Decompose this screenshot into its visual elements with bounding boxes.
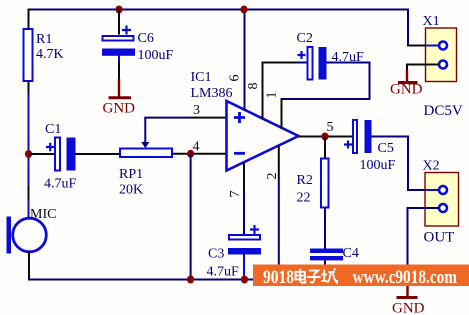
glyph dian: [296, 269, 306, 283]
svg-text:6: 6: [228, 75, 243, 82]
wire R1 to MIC (left vertical): [28, 82, 30, 219]
svg-text:R2: R2: [297, 173, 313, 188]
wire C2 to pin 1: [282, 63, 371, 129]
svg-text:4.7uF: 4.7uF: [207, 265, 240, 280]
svg-text:LM386: LM386: [191, 86, 233, 101]
svg-text:OUT: OUT: [424, 230, 455, 246]
wire RP1 wiper to pin 3: [141, 118, 226, 148]
wire rail to X1 pin1: [407, 9, 409, 46]
capacitor C4: [310, 246, 359, 261]
svg-text:www.c9018.com: www.c9018.com: [353, 268, 458, 288]
wire pin 8 to C2: [262, 63, 308, 120]
wire pin4 to bottom rail: [190, 154, 192, 280]
svg-text:20K: 20K: [119, 183, 143, 198]
svg-text:100uF: 100uF: [360, 158, 396, 173]
wire RP1 right to pin 4: [173, 153, 227, 155]
svg-text:100uF: 100uF: [138, 48, 174, 63]
wire output to R2: [324, 137, 326, 159]
wire C3 to bottom rail: [243, 255, 245, 280]
svg-text:X1: X1: [423, 14, 440, 29]
capacitor C1 4.7uF: [44, 122, 77, 192]
op-amp U1 LM386 triangle: [191, 70, 299, 171]
svg-text:IC1: IC1: [191, 70, 212, 85]
wire R2 to C4: [324, 209, 326, 249]
wire left vertical top stub: [28, 9, 30, 29]
wire top power rail: [29, 9, 409, 11]
glyph zi: [307, 271, 321, 283]
wire C5 to X2 pin1: [372, 137, 441, 191]
watermark banner: [253, 265, 469, 289]
wire C4 to bottom rail: [324, 260, 326, 279]
svg-text:1: 1: [265, 92, 280, 99]
wire MIC to bottom rail: [28, 252, 30, 279]
svg-text:MIC: MIC: [30, 207, 56, 222]
wire X2 pin2 to ground: [408, 208, 440, 286]
capacitor C6 100uF: [102, 26, 174, 64]
svg-text:DC5V: DC5V: [424, 103, 463, 119]
svg-text:C6: C6: [138, 31, 154, 46]
svg-text:4.7K: 4.7K: [36, 47, 64, 62]
node pin4 junction: [187, 150, 194, 158]
node output junction: [321, 133, 328, 141]
node bottom rail C3 junction: [241, 276, 248, 284]
svg-text:GND: GND: [392, 301, 425, 315]
wire output pin 5: [298, 136, 352, 138]
ground symbol below X2: [392, 284, 425, 315]
capacitor C3 4.7uF: [207, 225, 262, 280]
svg-text:8: 8: [246, 83, 261, 90]
glyph cheng: [321, 268, 337, 282]
svg-text:R1: R1: [36, 32, 52, 47]
microphone MIC: [7, 207, 57, 254]
svg-text:X2: X2: [423, 159, 440, 174]
wire C6 to ground: [118, 56, 120, 63]
wire pin 6 to top rail: [244, 10, 246, 111]
svg-text:2: 2: [265, 173, 280, 180]
ground symbol below X1: [390, 70, 423, 98]
node top rail pin6 junction: [240, 6, 247, 14]
connector X2: [423, 159, 459, 246]
svg-text:C2: C2: [297, 31, 313, 46]
node top rail C6 junction: [115, 6, 122, 14]
svg-text:4.7uF: 4.7uF: [44, 177, 77, 192]
wire C1 to RP1: [76, 153, 120, 155]
wire C1 junction to C1: [29, 153, 55, 155]
capacitor C5 100uF: [344, 120, 396, 173]
svg-text:3: 3: [193, 103, 200, 118]
node C1 junction: [25, 150, 32, 158]
wire pin 2 to bottom rail: [278, 146, 280, 179]
svg-text:C3: C3: [208, 247, 224, 262]
wire X1 pin2 to ground: [407, 65, 439, 73]
svg-text:C5: C5: [378, 141, 394, 156]
svg-text:5: 5: [327, 120, 334, 135]
wire pin 7 to C3: [243, 162, 245, 192]
wire bottom ground rail: [28, 279, 330, 281]
resistor R1: [24, 29, 64, 81]
wire rail to C6: [118, 10, 120, 35]
svg-text:GND: GND: [390, 82, 423, 98]
potentiometer RP1 20K: [119, 149, 172, 198]
svg-text:RP1: RP1: [119, 167, 143, 182]
svg-text:C4: C4: [343, 246, 359, 261]
resistor R2 22: [297, 159, 329, 208]
ground symbol below C6: [103, 79, 136, 117]
svg-text:7: 7: [228, 191, 243, 198]
capacitor C2 4.7uF: [297, 31, 365, 80]
svg-text:C1: C1: [45, 122, 61, 137]
svg-text:22: 22: [297, 191, 311, 206]
connector X1: [423, 14, 463, 119]
svg-text:9018: 9018: [263, 268, 294, 288]
svg-text:GND: GND: [103, 101, 136, 117]
node bottom rail pin4 junction: [187, 276, 194, 284]
